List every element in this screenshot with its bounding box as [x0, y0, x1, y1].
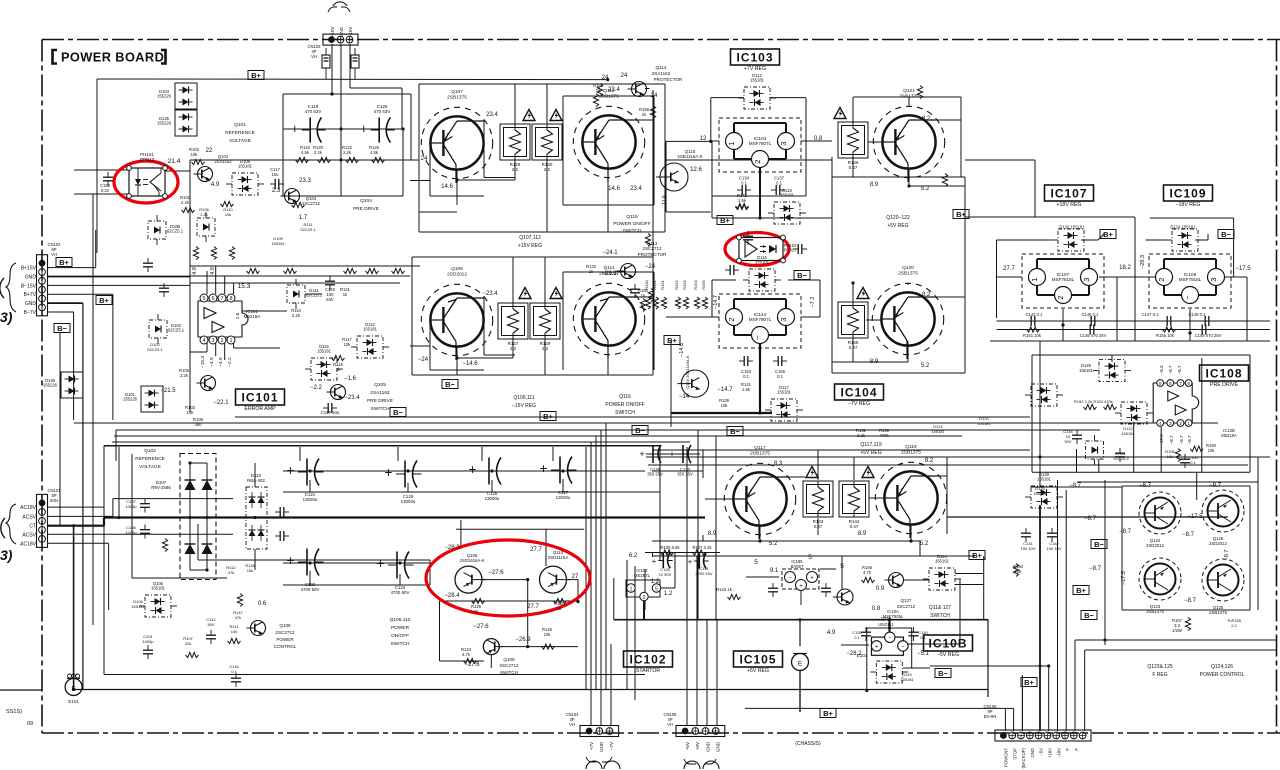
net symbol B-	[727, 427, 743, 436]
label IC10B	[924, 635, 973, 658]
node	[865, 689, 868, 692]
node	[188, 516, 191, 519]
wire	[745, 707, 1014, 709]
svg-text:02CZ5.1: 02CZ5.1	[147, 347, 163, 352]
svg-text:SWITCH: SWITCH	[623, 228, 642, 234]
text Q116	[619, 394, 631, 400]
wire	[590, 689, 592, 726]
wire	[397, 447, 399, 461]
text R166	[862, 565, 873, 570]
wire	[418, 84, 420, 232]
wire	[832, 372, 965, 374]
wire	[820, 568, 836, 570]
node	[758, 539, 761, 542]
text 0.1	[1190, 460, 1196, 465]
text −27.6	[464, 662, 480, 668]
label IC104	[835, 384, 884, 407]
wire	[960, 97, 962, 177]
op-amp IC185	[782, 569, 819, 591]
text 2.2	[1231, 623, 1237, 628]
svg-text:−24.1: −24.1	[602, 250, 618, 256]
text Q120−122	[886, 215, 910, 221]
wire	[254, 549, 256, 570]
wire	[711, 280, 713, 317]
svg-text:155181: 155181	[780, 193, 795, 198]
capacitor	[140, 525, 150, 539]
wire	[1057, 480, 1059, 731]
wire	[841, 644, 869, 646]
connector CN104	[565, 712, 620, 769]
wire	[74, 689, 988, 691]
svg-text:Q108: Q108	[279, 623, 291, 628]
svg-text:1/2W: 1/2W	[1172, 628, 1182, 633]
svg-text:47k: 47k	[228, 570, 234, 575]
capacitor C131	[688, 553, 709, 568]
wire	[711, 97, 744, 99]
node	[205, 516, 208, 519]
text 0.1	[854, 635, 860, 640]
wire	[759, 343, 761, 413]
text −26.9	[515, 637, 531, 643]
wire	[652, 90, 654, 268]
svg-text:R163: R163	[682, 279, 687, 289]
svg-text:155226: 155226	[157, 121, 172, 126]
node	[1188, 331, 1191, 334]
text C107	[126, 499, 136, 504]
text C134	[739, 176, 750, 181]
text −2.2	[310, 385, 323, 391]
text C156	[775, 369, 786, 374]
svg-text:155226: 155226	[123, 397, 138, 402]
text −27.6	[488, 570, 504, 576]
svg-text:4.9: 4.9	[211, 182, 220, 188]
capacitor	[231, 673, 241, 687]
resistor	[366, 268, 379, 273]
resistor	[597, 84, 602, 97]
svg-text:100 10V: 100 10V	[1047, 546, 1062, 551]
wire	[544, 257, 546, 303]
svg-text:C146 0.1: C146 0.1	[1082, 312, 1100, 317]
node	[1061, 323, 1064, 326]
wire	[759, 168, 761, 219]
text 5	[840, 563, 844, 570]
svg-text:−14.7: −14.7	[717, 387, 733, 393]
warning mark	[519, 288, 531, 299]
svg-text:−27.6: −27.6	[488, 570, 504, 576]
svg-text:GND: GND	[599, 741, 604, 752]
capacitor	[773, 356, 787, 366]
text −5.1	[917, 651, 930, 657]
svg-text:4.5k: 4.5k	[301, 150, 310, 155]
svg-text:50V: 50V	[207, 622, 214, 627]
svg-text:155181: 155181	[750, 78, 765, 83]
net symbol B-	[1091, 540, 1107, 549]
net symbol B+	[664, 336, 680, 345]
node	[490, 469, 493, 472]
capacitor	[1200, 316, 1214, 326]
svg-text:0.1: 0.1	[920, 635, 926, 640]
text D102	[150, 342, 160, 347]
annotation ellipse Q106/Q110	[426, 540, 590, 616]
wire	[666, 140, 711, 142]
text 155181	[977, 421, 991, 426]
svg-text:B+7V: B+7V	[24, 292, 37, 298]
wire	[919, 541, 921, 556]
transistor Q112	[573, 88, 644, 182]
diode D129	[1025, 472, 1063, 508]
connector brace arc upper	[0, 278, 4, 298]
wire	[242, 310, 287, 312]
diode D10B	[148, 215, 184, 245]
svg-text:B+: B+	[1024, 678, 1034, 687]
warning mark	[550, 110, 562, 121]
wire	[852, 97, 854, 123]
text C145 470 25V	[1080, 333, 1107, 338]
wire	[546, 160, 548, 232]
svg-text:Q106,111: Q106,111	[513, 395, 534, 401]
svg-text:B+: B+	[720, 216, 730, 225]
svg-text:1: 1	[630, 586, 633, 592]
wire	[614, 619, 988, 621]
wire	[482, 579, 528, 581]
svg-text:0.1: 0.1	[231, 669, 237, 674]
wire	[762, 576, 779, 578]
svg-text:−15.3: −15.3	[200, 356, 206, 368]
wire	[866, 627, 912, 629]
text 155181	[131, 604, 145, 609]
wire	[605, 423, 607, 689]
svg-text:(CHASSIS): (CHASSIS)	[795, 741, 821, 747]
text REFERENCE	[225, 130, 255, 136]
svg-text:VH: VH	[667, 722, 673, 727]
svg-text:5: 5	[808, 554, 812, 561]
svg-text:Q120: Q120	[902, 265, 914, 271]
transistor Q114	[628, 82, 647, 97]
svg-text:D124 155181: D124 155181	[1170, 225, 1196, 230]
text R115	[333, 362, 343, 367]
wire	[1116, 277, 1118, 341]
svg-text:R164: R164	[693, 279, 698, 289]
transistor Q101	[194, 167, 213, 182]
text D121	[1116, 451, 1126, 456]
svg-text:2.2k: 2.2k	[181, 200, 190, 205]
svg-text:+: +	[688, 557, 693, 566]
node	[455, 178, 458, 181]
wire	[407, 483, 409, 492]
node	[308, 561, 311, 564]
resistor	[1013, 564, 1018, 577]
svg-text:C148 470 25V: C148 470 25V	[1195, 333, 1222, 338]
wire	[634, 566, 636, 700]
wire	[652, 470, 703, 472]
svg-text:2SB1375: 2SB1375	[898, 270, 918, 276]
svg-text:8.9: 8.9	[708, 531, 717, 537]
svg-text:11.9: 11.9	[662, 195, 668, 205]
svg-text:2.2k: 2.2k	[343, 150, 352, 155]
text C142	[1049, 541, 1059, 546]
text 11.9	[662, 195, 668, 205]
text 10k	[247, 568, 253, 573]
wire	[113, 498, 233, 500]
wire	[1160, 427, 1162, 472]
wire	[456, 347, 458, 375]
text R137 2.2k	[692, 545, 712, 550]
svg-text:IC107: IC107	[1050, 187, 1087, 201]
resistor	[318, 157, 331, 162]
text POWER	[391, 625, 410, 631]
resistor R145	[838, 302, 868, 350]
wire	[712, 195, 806, 197]
wire	[563, 204, 654, 206]
svg-text:SWITCH: SWITCH	[391, 641, 410, 647]
wire	[1121, 486, 1123, 610]
wire	[1013, 708, 1015, 731]
wire	[47, 293, 113, 295]
text −4.9	[218, 357, 224, 367]
text R116	[291, 308, 301, 313]
wire	[481, 447, 483, 461]
resistor R161	[660, 279, 667, 309]
resistor R143	[803, 481, 833, 529]
svg-text:1: 1	[1187, 421, 1190, 427]
text 8.2	[922, 116, 931, 122]
svg-text:155181: 155181	[1079, 368, 1094, 373]
svg-text:−: −	[901, 644, 905, 650]
resistor R128	[500, 124, 530, 172]
svg-text:10k: 10k	[247, 568, 253, 573]
text D129	[1035, 486, 1045, 491]
text R120	[313, 145, 324, 150]
wire	[1146, 239, 1167, 241]
svg-text:02CZ5.1: 02CZ5.1	[300, 227, 316, 232]
node	[406, 469, 409, 472]
node	[117, 516, 120, 519]
resistor	[192, 159, 205, 164]
diode D119	[870, 661, 908, 683]
text −14.7	[713, 295, 719, 309]
svg-text:RBA-402: RBA-402	[247, 478, 265, 483]
wire	[1195, 239, 1208, 241]
wire	[309, 571, 311, 585]
node	[709, 140, 712, 143]
wire	[527, 580, 529, 645]
transistor Q127	[885, 573, 904, 588]
text 155181	[1079, 368, 1094, 373]
text Q106,111	[513, 395, 534, 401]
capacitor	[325, 276, 335, 290]
svg-text:B−7V: B−7V	[24, 310, 37, 316]
node	[1038, 664, 1041, 667]
text 24	[602, 75, 609, 81]
svg-text:Q121: Q121	[903, 88, 915, 94]
text 2SA1162	[214, 159, 232, 164]
wire	[903, 667, 930, 669]
svg-text:GND: GND	[339, 26, 344, 37]
text 27.7	[527, 604, 539, 610]
text −28.2	[846, 651, 862, 657]
wire	[1224, 276, 1247, 278]
capacitor	[275, 507, 289, 517]
wire	[74, 193, 129, 195]
svg-text:+5V: +5V	[685, 742, 690, 750]
text Q101	[218, 154, 229, 159]
wire	[47, 302, 83, 304]
text 1k	[474, 609, 479, 614]
node	[188, 461, 191, 464]
wire	[710, 98, 712, 142]
capacitor	[793, 244, 807, 254]
text −8.3	[1159, 365, 1164, 375]
text −14.6	[462, 361, 478, 367]
text −8.7	[1089, 566, 1102, 572]
transistor Q120	[872, 265, 943, 359]
wire	[305, 293, 322, 295]
text POWER CONTRO	[1200, 672, 1245, 678]
wire	[410, 94, 412, 160]
wire	[1246, 277, 1248, 341]
text 0.1	[743, 374, 749, 379]
svg-text:STOP: STOP	[1012, 748, 1017, 760]
ground E101	[65, 674, 82, 704]
resistor R165	[701, 279, 708, 309]
svg-text:Q117,119: Q117,119	[860, 442, 881, 448]
text 27.7	[530, 547, 542, 553]
wire	[483, 297, 485, 355]
text 5	[754, 559, 758, 566]
text 10u	[272, 172, 280, 177]
wire	[648, 464, 1248, 466]
wire	[1048, 666, 1050, 731]
svg-text:10k: 10k	[231, 629, 237, 634]
wire	[666, 316, 712, 318]
diode D108	[226, 159, 264, 195]
warning mark	[857, 288, 869, 299]
svg-text:24: 24	[602, 75, 609, 81]
svg-text:R151 10k: R151 10k	[1023, 333, 1042, 338]
wire	[190, 265, 420, 267]
wire	[799, 670, 801, 712]
svg-text:Q107: Q107	[451, 89, 463, 95]
text VOLTAGE	[139, 464, 161, 470]
wire	[198, 559, 430, 561]
svg-text:F REG: F REG	[1152, 672, 1167, 678]
svg-text:SWITCH: SWITCH	[371, 406, 390, 412]
wire	[585, 447, 587, 689]
wire	[653, 96, 655, 205]
wire	[805, 98, 807, 196]
resistor R127	[498, 303, 528, 351]
text −8.7	[1119, 529, 1132, 535]
text R125	[471, 604, 482, 609]
svg-text:3: 3	[1082, 278, 1091, 282]
node	[308, 469, 311, 472]
text 8.2	[922, 292, 931, 298]
warning mark	[834, 108, 846, 119]
text C141	[1023, 541, 1033, 546]
svg-text:2.2: 2.2	[510, 346, 517, 351]
svg-text:IC10B: IC10B	[928, 637, 967, 651]
text R122	[342, 145, 353, 150]
op-amp IC102 startor	[626, 568, 661, 601]
svg-text:2.6: 2.6	[235, 312, 241, 319]
text SWITCH	[615, 410, 635, 416]
svg-text:Q102: Q102	[144, 448, 156, 454]
text −22.1	[213, 400, 229, 406]
wire	[206, 463, 208, 570]
wire	[908, 97, 910, 106]
text −28.4	[444, 593, 460, 599]
wire	[715, 436, 717, 620]
text Q127	[901, 598, 912, 603]
diode D125	[1093, 360, 1131, 382]
text 2SC2712	[302, 201, 321, 206]
wire	[104, 445, 660, 447]
svg-text:155181: 155181	[977, 421, 991, 426]
svg-text:350 25V: 350 25V	[647, 472, 663, 477]
wire	[546, 84, 548, 124]
wire	[670, 340, 672, 427]
diode D124	[1166, 229, 1204, 251]
transistor Q102	[197, 376, 216, 391]
wire	[112, 441, 690, 443]
svg-text:10k: 10k	[1208, 448, 1216, 453]
wire	[233, 341, 235, 348]
resistor R141	[652, 279, 659, 309]
node	[1047, 664, 1050, 667]
diode D118	[768, 188, 806, 224]
wire	[190, 159, 419, 161]
svg-text:0.47: 0.47	[849, 345, 858, 350]
text D120 155181	[1059, 225, 1085, 230]
wire	[47, 533, 233, 535]
node	[606, 78, 609, 81]
svg-text:−8.7: −8.7	[1168, 365, 1173, 375]
text 10	[1066, 434, 1071, 439]
svg-text:R137 2.2k: R137 2.2k	[692, 545, 712, 550]
text Q109	[503, 657, 515, 662]
text −2.2	[227, 357, 233, 367]
text 24	[621, 73, 628, 79]
svg-text:+7V: +7V	[589, 742, 594, 750]
net symbol B-	[54, 324, 70, 333]
fuse link under CN103 pin1	[322, 48, 330, 79]
wire	[990, 340, 1270, 342]
svg-text:5: 5	[1159, 381, 1162, 387]
diode D101	[123, 386, 163, 412]
svg-text:47k: 47k	[235, 615, 241, 620]
svg-text:23.4: 23.4	[486, 112, 498, 118]
capacitor	[275, 531, 289, 541]
svg-text:−24: −24	[418, 357, 429, 363]
resistor R144	[839, 481, 869, 529]
resistor	[645, 234, 650, 247]
text 2.2k	[181, 200, 190, 205]
ground E103	[792, 653, 868, 747]
resistor	[193, 247, 198, 260]
text 5.2	[769, 541, 778, 547]
svg-text:2SD2012: 2SD2012	[1146, 543, 1165, 548]
wire	[1085, 649, 1277, 651]
resistor R146	[838, 122, 868, 170]
diode D121 zener	[1086, 435, 1104, 465]
warning mark	[862, 467, 874, 478]
text R121	[340, 287, 351, 292]
svg-text:SWITCH: SWITCH	[615, 410, 635, 416]
net symbol B+	[540, 412, 556, 421]
text 1.5k	[738, 198, 747, 203]
svg-text:−17.5: −17.5	[1159, 434, 1164, 446]
text 10k	[231, 629, 237, 634]
